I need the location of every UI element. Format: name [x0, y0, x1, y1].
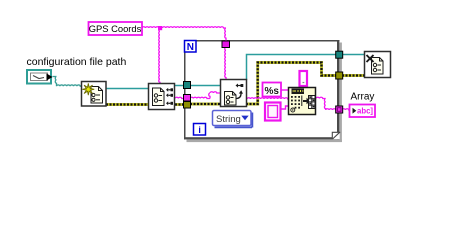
string wire: right tunnel to Array indicator — [342, 109, 349, 110]
svg-text:configuration file path: configuration file path — [27, 56, 127, 68]
constant: empty string above icon4 — [300, 71, 308, 86]
string wire: branch down to icon2 top — [159, 28, 160, 83]
error wire: right tunnel to close icon — [342, 74, 364, 77]
error wire: icon2 to left tunnel — [175, 103, 184, 106]
string wire: down from horizontal into top tunnel and to icon3 top — [225, 28, 226, 79]
refnum wire: right tunnel to close icon — [342, 54, 364, 56]
indicator: Array (array of strings) — [350, 105, 376, 118]
tunnel: string on top loop border — [222, 41, 230, 48]
string wire: icon4 out to right tunnel — [316, 97, 336, 110]
string wire: icon2 out to left tunnel — [175, 97, 184, 98]
string wire: GPS Coords label right to loop tunnel — [142, 27, 226, 28]
svg-text:%s: %s — [264, 86, 279, 97]
svg-text:N: N — [187, 42, 194, 53]
svg-text:Array: Array — [351, 92, 375, 103]
tunnel: refnum on right loop border — [336, 51, 343, 58]
tunnel: refnum on left loop border — [184, 82, 191, 89]
refnum wire: icon2 to left tunnel — [175, 85, 184, 87]
constant: empty string (delimiter) — [265, 103, 281, 121]
svg-text:abc]: abc] — [357, 106, 373, 115]
string wire junction — [158, 26, 162, 30]
VI icon U1: Open Config Data — [82, 82, 107, 107]
tunnel: error on left loop border — [184, 102, 191, 109]
constant: String ring — [213, 111, 253, 128]
VI icon U3: Read Key inside loop — [221, 80, 247, 107]
for loop iteration terminal i — [194, 124, 206, 136]
VI icon U5: Close Config Data — [365, 52, 391, 78]
svg-text:String: String — [216, 114, 241, 125]
string wire: left tunnel to icon3 — [190, 92, 220, 99]
constant: %s format string — [263, 83, 282, 97]
for loop count terminal N — [185, 41, 197, 54]
error wire: inside loop, behind icon3, up and right to right tunnel — [190, 63, 336, 105]
svg-text:i: i — [198, 125, 201, 135]
function U4: Spreadsheet String To Array — [289, 88, 316, 115]
tunnel: string output (indexing) on right loop border — [336, 106, 343, 113]
svg-text:GPS Coords: GPS Coords — [89, 23, 142, 34]
tunnel: error on right loop border — [336, 72, 343, 79]
string wire: empty string constant to icon4 — [281, 106, 289, 109]
error wire: icon1 to icon2 — [106, 103, 148, 106]
refnum wire: icon3 up and right to right tunnel — [247, 55, 337, 81]
loop folded corner — [332, 132, 340, 139]
refnum wire: left tunnel to icon3 — [190, 85, 220, 87]
VI icon U2: Read Key — [149, 84, 175, 110]
control: configuration file path (path control terminal) — [27, 70, 53, 84]
path wire: control to icon1 — [53, 77, 82, 87]
string wire: %s constant to icon4 — [281, 89, 288, 91]
label: GPS Coords (string constant) — [89, 22, 143, 35]
refnum wire: icon1 to icon2 — [106, 88, 148, 90]
for loop frame — [184, 40, 342, 142]
tunnel: string on left loop border — [184, 95, 191, 102]
string wire: icon3 out to icon4 — [247, 98, 288, 99]
